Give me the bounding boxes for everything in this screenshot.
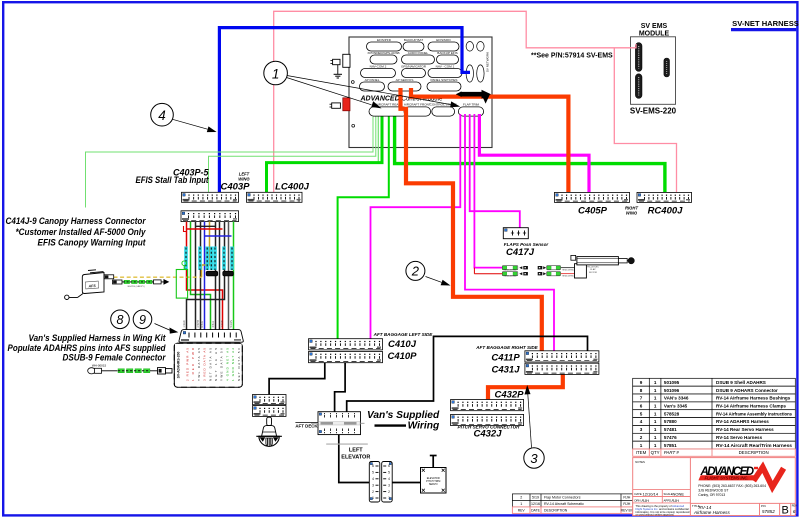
- svg-text:2 WHT: 2 WHT: [197, 320, 200, 328]
- ADAHRS bundle wire tiny labels: [183, 320, 233, 328]
- balloon 9: [133, 310, 152, 329]
- svg-text:WING: WING: [238, 177, 250, 182]
- svg-text:C432J: C432J: [474, 429, 503, 440]
- wire magenta flap trim to flap motor connector: [474, 114, 502, 268]
- balloon 3 arrow to C432P: [525, 385, 532, 448]
- trim servo box: [421, 456, 447, 494]
- svg-text:EFIS Stall Tab Input: EFIS Stall Tab Input: [136, 175, 210, 185]
- svg-text:DSUB 9 Shell ADAHRS: DSUB 9 Shell ADAHRS: [716, 380, 766, 385]
- svg-text:1: 1: [654, 443, 657, 448]
- svg-text:AFT DECK: AFT DECK: [295, 424, 318, 429]
- svg-text:C417J: C417J: [506, 247, 535, 258]
- canopy micro switch: [65, 270, 104, 300]
- wire magenta flap trim to C410J: [371, 114, 461, 339]
- connector DSUB-9 ADAHRS: [179, 330, 243, 343]
- revision table: [512, 494, 633, 514]
- svg-text:NOTES: NOTES: [635, 460, 645, 464]
- svg-text:1: 1: [654, 396, 657, 401]
- svg-text:12/10/14: 12/10/14: [643, 491, 659, 496]
- svg-text:1: 1: [654, 427, 657, 432]
- svg-text:RED1 (DRV6): RED1 (DRV6): [562, 270, 574, 272]
- canopy switch terminal lower: [113, 280, 123, 284]
- svg-text:RJH: RJH: [672, 499, 680, 503]
- svg-text:DESCRIPTION: DESCRIPTION: [544, 509, 568, 513]
- svg-text:57476: 57476: [664, 435, 677, 440]
- svg-text:5: 5: [372, 471, 374, 475]
- svg-text:2 RED PWR A5: 2 RED PWR A5: [186, 348, 190, 381]
- SV EMS small connector right: [664, 58, 670, 77]
- svg-text:DATE: DATE: [635, 492, 642, 496]
- ACM SV NETWORK oval 4: [477, 65, 484, 82]
- svg-text:RJH: RJH: [623, 496, 630, 500]
- svg-text:C410J: C410J: [388, 339, 417, 350]
- svg-text:LEFT: LEFT: [349, 448, 363, 454]
- label C403P-5 EFIS Stall Tab Input: [136, 168, 210, 186]
- svg-text:AIRCRAFT REAR: AIRCRAFT REAR: [376, 103, 402, 107]
- ACM port oval PANEL SWITCHES: [427, 78, 461, 91]
- svg-text:57481: 57481: [664, 427, 677, 432]
- svg-text:C414J-9 Canopy Harness Connect: C414J-9 Canopy Harness Connector: [6, 216, 147, 226]
- wire pink branch to RC400J: [614, 48, 676, 192]
- svg-text:SV NETWORK: SV NETWORK: [486, 52, 490, 72]
- flap motor actuator body: [571, 255, 599, 278]
- wire red flap motor lower left: [474, 273, 502, 275]
- svg-text:8: 8: [117, 313, 124, 327]
- balloon 4 arrow to blue wire: [173, 119, 217, 132]
- svg-text:C403P: C403P: [220, 182, 250, 193]
- connector elevator trim pin block right: [382, 462, 393, 503]
- svg-text:RV-14 Servo Harness: RV-14 Servo Harness: [716, 435, 763, 440]
- svg-text:57880: 57880: [664, 419, 677, 424]
- wire orange AP SERVOS to C405P: [411, 88, 568, 192]
- tail position light: [256, 417, 282, 446]
- svg-text:RV-14 Aircraft Rear/Trim Harne: RV-14 Aircraft Rear/Trim Harness: [716, 443, 792, 448]
- svg-text:578528: 578528: [664, 411, 680, 416]
- svg-text:DATE: DATE: [531, 509, 541, 513]
- splice bar right: [223, 271, 234, 276]
- ACM port oval BACKUP EFIS: [437, 51, 459, 64]
- svg-text:YWL DATA A5: YWL DATA A5: [197, 348, 201, 381]
- svg-text:RV-14 Airframe Harness Clamps: RV-14 Airframe Harness Clamps: [716, 404, 786, 409]
- balloon 9 arrow to D-sub: [155, 324, 179, 334]
- svg-text:VAN's 3346: VAN's 3346: [664, 396, 689, 401]
- ACM coax connector upper left: [330, 54, 350, 67]
- logo address text: [698, 484, 766, 497]
- balloon 4: [151, 103, 174, 126]
- svg-text:SV-ADAHRS-200: SV-ADAHRS-200: [177, 352, 181, 379]
- ACM SV NETWORK oval 2: [477, 42, 484, 52]
- svg-text:P/N: P/N: [761, 504, 766, 508]
- svg-text:DSUB 9 ADHARS Connector: DSUB 9 ADHARS Connector: [716, 388, 778, 393]
- wire blue bundle 5: [204, 222, 206, 330]
- flap motor inline connector tiny labels right: [562, 270, 574, 278]
- svg-text:EFIS/PFD: EFIS/PFD: [377, 38, 392, 42]
- svg-text:7: 7: [640, 396, 643, 401]
- svg-text:Wiring: Wiring: [408, 421, 440, 432]
- svg-text:APPD: APPD: [664, 498, 672, 502]
- green highlight circle: [182, 261, 187, 266]
- ADAHRS pin label columns: [186, 347, 241, 381]
- svg-text:SV-NET HARNESS: SV-NET HARNESS: [732, 19, 799, 28]
- balloon 1 arrow to FLAP TRIM: [287, 76, 460, 108]
- ACM port oval AIRCRAFT FRONT: [404, 103, 431, 116]
- svg-text:NAV - COM 1: NAV - COM 1: [436, 65, 455, 69]
- svg-text:RC400J: RC400J: [648, 206, 684, 217]
- wire black aft deck to elevator trim connector: [339, 435, 370, 483]
- svg-text:LC400J: LC400J: [275, 182, 310, 193]
- wire magenta flap trim to C411P: [465, 114, 554, 351]
- wire orange C431J to C432P: [488, 374, 563, 399]
- svg-text:2: 2: [372, 490, 374, 494]
- wire black bundle 8: [219, 222, 221, 330]
- svg-text:AFS: AFS: [87, 284, 96, 289]
- svg-text:RV-14 Rear Servo Harness: RV-14 Rear Servo Harness: [716, 427, 774, 432]
- balloon 1 arrow to AIRCRAFT REAR: [287, 78, 382, 109]
- wire black trim connector to trim servo: [392, 482, 420, 484]
- title block part number: [761, 504, 775, 514]
- svg-text:1: 1: [654, 380, 657, 385]
- module SV EMS box: [631, 37, 676, 105]
- svg-text:5: 5: [640, 411, 643, 416]
- label Van's Supplied Harness text block: [8, 333, 167, 363]
- svg-text:AUDIO PANEL: AUDIO PANEL: [408, 51, 429, 55]
- svg-text:C431J: C431J: [492, 365, 521, 376]
- wire green to RC400J right wing: [395, 117, 665, 193]
- splice bar left: [206, 271, 218, 276]
- svg-text:1: 1: [272, 66, 280, 81]
- svg-text:FLIGHT SYSTEMS INC.: FLIGHT SYSTEMS INC.: [705, 476, 749, 481]
- svg-text:ITEM: ITEM: [636, 450, 647, 455]
- ACM SV NETWORK oval 1: [466, 42, 473, 52]
- wire blue crossing jog upper: [205, 235, 232, 237]
- svg-text:57851: 57851: [664, 443, 677, 448]
- mounting hole left lower: [352, 124, 355, 127]
- green highlight wire stub: [183, 266, 185, 270]
- svg-text:2: 2: [640, 435, 643, 440]
- connector C411P strip: [525, 351, 599, 362]
- svg-text:FLAP TRIM: FLAP TRIM: [463, 103, 479, 107]
- svg-text:5/19: 5/19: [532, 496, 539, 500]
- ACM port oval GPS/NAVIGATOR: [401, 65, 427, 78]
- BOM parts table: [633, 378, 796, 449]
- svg-text:SV EMS: SV EMS: [641, 23, 668, 30]
- svg-text:EFIS/MFD: EFIS/MFD: [436, 38, 451, 42]
- connector FLAPS position sensor C417J: [503, 228, 528, 239]
- wire green bundle 2: [191, 222, 211, 330]
- svg-text:NET DATA 5V: NET DATA 5V: [237, 348, 241, 381]
- title block rev number: [792, 505, 797, 515]
- ACM port oval AP SERVOS: [388, 78, 421, 91]
- svg-text:6: 6: [793, 509, 796, 515]
- wire gray bundle 10: [228, 222, 230, 330]
- divider line LEFT ELEVATOR: [326, 443, 368, 445]
- balloon 8: [111, 310, 130, 329]
- connector C410J strip: [309, 339, 383, 350]
- connector C410P strip: [309, 352, 383, 363]
- svg-text:REV: REV: [518, 509, 526, 513]
- wire red bundle 1: [187, 222, 223, 330]
- svg-text:RV-14: RV-14: [699, 505, 712, 510]
- svg-text:6 BLU: 6 BLU: [201, 321, 204, 328]
- wire black flap motor to actuator upper: [561, 267, 575, 269]
- svg-text:3: 3: [372, 483, 374, 487]
- cyan heat shrink markers: [186, 247, 232, 271]
- connector C431J strip: [525, 363, 599, 374]
- svg-text:6: 6: [640, 404, 643, 409]
- connector C405P strip: [555, 192, 630, 202]
- svg-text:C411P: C411P: [491, 352, 520, 363]
- wire olive canopy switch wire: [202, 222, 210, 278]
- wire black C411P to aft deck: [347, 336, 588, 411]
- svg-text:BACKUP EFIS: BACKUP EFIS: [437, 51, 457, 55]
- svg-text:C405P: C405P: [578, 206, 608, 217]
- connector AFT DECK block: [311, 412, 365, 435]
- ACM SV NETWORK oval 3: [466, 65, 473, 82]
- wire black bundle 9: [187, 222, 225, 330]
- ACM port oval FLAP TRIM: [458, 103, 483, 116]
- title block drawing title: [692, 504, 730, 515]
- balloon 2 arrow to orange wire: [426, 277, 451, 286]
- svg-text:MODULE: MODULE: [639, 30, 670, 37]
- svg-text:ELEVATOR: ELEVATOR: [341, 455, 370, 461]
- wire magenta flap trim to C417J flap sensor: [470, 114, 520, 228]
- module ACM Advanced Control Module box: [349, 37, 492, 148]
- svg-text:FLAP: FLAP: [590, 268, 596, 271]
- svg-text:GPS/NAVIGATOR: GPS/NAVIGATOR: [401, 65, 427, 69]
- svg-text:Van's Supplied: Van's Supplied: [367, 410, 440, 421]
- connector RC400J strip: [637, 192, 692, 202]
- svg-text:2: 2: [388, 490, 390, 494]
- wire green long bundle 11: [233, 222, 235, 330]
- svg-text:DESCRIPTION: DESCRIPTION: [739, 450, 769, 455]
- svg-text:NET 1A A5: NET 1A A5: [214, 348, 218, 381]
- svg-text:Van's 3345: Van's 3345: [664, 404, 688, 409]
- svg-text:**See P/N:57914 SV-EMS: **See P/N:57914 SV-EMS: [531, 53, 613, 60]
- svg-text:QTY: QTY: [651, 450, 660, 455]
- svg-text:5: 5: [388, 471, 390, 475]
- wire black bundle 4: [200, 222, 202, 330]
- wire green banded canopy switch: [122, 280, 164, 288]
- svg-text:C432P: C432P: [494, 390, 524, 401]
- svg-text:Airframe Harness: Airframe Harness: [693, 510, 730, 515]
- svg-text:C410P: C410P: [387, 351, 417, 362]
- wire black C410P to aft deck: [335, 363, 346, 412]
- svg-text:PANEL SWITCHES: PANEL SWITCHES: [431, 78, 458, 82]
- svg-text:AIRCRAFT FRONT: AIRCRAFT FRONT: [404, 103, 431, 107]
- svg-text:501095: 501095: [664, 380, 680, 385]
- svg-text:1 GND NET A2: 1 GND NET A2: [231, 348, 235, 381]
- label RIGHT WING: [625, 206, 638, 216]
- SV EMS connector bar upper: [635, 43, 642, 72]
- svg-text:3: 3: [388, 483, 390, 487]
- svg-text:YWE DATA 5V: YWE DATA 5V: [220, 348, 224, 381]
- connector C414 canopy strip: [181, 211, 239, 222]
- wire black crossing jog upper: [196, 225, 216, 227]
- ACM port oval AIRCRAFT REAR: [369, 103, 408, 116]
- connector C403P strip: [182, 192, 239, 202]
- svg-text:501096: 501096: [664, 388, 680, 393]
- SV EMS connector bar lower: [635, 74, 642, 99]
- label LEFT WING: [238, 172, 250, 182]
- svg-text:EFIS Canopy Warning Input: EFIS Canopy Warning Input: [38, 238, 147, 248]
- module SV-ADAHRS-200 block: [174, 343, 242, 387]
- ACM port oval NAV-COM 2: [361, 65, 396, 78]
- wire light green C stub: [377, 117, 379, 163]
- svg-text:2: 2: [520, 496, 522, 500]
- svg-text:AFT BAGGAGE RIGHT SIDE: AFT BAGGAGE RIGHT SIDE: [475, 345, 538, 350]
- svg-text:DSUB-9 Female Connector: DSUB-9 Female Connector: [63, 353, 167, 363]
- wire black bundle 3: [195, 222, 197, 330]
- svg-text:3 RED DATA A5: 3 RED DATA A5: [203, 348, 207, 381]
- connector C432J strip: [451, 414, 524, 425]
- wire light green A to canopy area: [86, 117, 374, 208]
- svg-text:1: 1: [654, 411, 657, 416]
- mounting hole left upper: [351, 81, 354, 84]
- green highlight box: [176, 270, 187, 299]
- svg-text:RJH: RJH: [642, 499, 650, 503]
- svg-text:*Customer Installed AF-5000 On: *Customer Installed AF-5000 Only: [16, 227, 147, 237]
- svg-text:REV BY: REV BY: [621, 509, 634, 513]
- balloon 3: [524, 448, 544, 468]
- label AFT DECK: [295, 422, 318, 428]
- wire light green B to C403P: [209, 117, 376, 193]
- flap motor actuator barrel: [577, 257, 629, 265]
- flap motor inline connector tiny labels left: [504, 270, 516, 278]
- svg-text:NONE: NONE: [673, 491, 685, 496]
- svg-text:9: 9: [640, 380, 643, 385]
- svg-text:57852: 57852: [762, 509, 775, 514]
- svg-text:RED1 (DRV4): RED1 (DRV4): [504, 270, 516, 272]
- svg-text:SCALE: SCALE: [664, 492, 673, 496]
- svg-text:8: 8: [640, 388, 643, 393]
- svg-text:1: 1: [520, 502, 522, 506]
- ACM red power connector lower left: [330, 98, 351, 111]
- wire pink LC400J to SV-EMS: [274, 11, 636, 192]
- svg-text:BACKUP BAT: BACKUP BAT: [404, 38, 423, 42]
- svg-text:Flap Motor Connectors: Flap Motor Connectors: [544, 496, 581, 500]
- svg-text:2: 2: [411, 264, 420, 279]
- svg-text:1: 1: [654, 404, 657, 409]
- svg-text:B: B: [782, 505, 789, 517]
- connector C432P strip: [451, 400, 524, 411]
- svg-text:Van's Supplied Harness in Wing: Van's Supplied Harness in Wing Kit: [29, 333, 167, 343]
- svg-text:REV: REV: [792, 505, 797, 508]
- balloon 1: [264, 61, 288, 85]
- ACM port oval AP PANEL: [360, 78, 385, 91]
- connector tail strip lower: [253, 406, 287, 417]
- wire green to LC400J: [267, 117, 383, 193]
- svg-text:4: 4: [640, 419, 643, 424]
- svg-text:PART #: PART #: [664, 450, 680, 455]
- logo ADVANCED Flight Systems: [698, 466, 758, 481]
- balloon 2: [406, 261, 425, 280]
- canopy switch terminal upper: [104, 275, 114, 279]
- svg-text:1: 1: [640, 443, 643, 448]
- wire black C410P to tail strip: [269, 363, 325, 395]
- ACM port oval BACKUP BAT: [403, 38, 424, 51]
- ACM port oval AUDIO PANEL: [402, 51, 435, 64]
- svg-text:Canby, OR 97013: Canby, OR 97013: [698, 493, 725, 497]
- svg-text:3 BLK: 3 BLK: [212, 321, 215, 328]
- svg-text:AP SERVOS: AP SERVOS: [396, 78, 414, 82]
- svg-text:4 GND NET A5: 4 GND NET A5: [225, 348, 229, 381]
- svg-text:4: 4: [388, 477, 390, 481]
- wire red flap motor to actuator lower: [561, 273, 576, 275]
- svg-text:RED2 (DRV6): RED2 (DRV6): [562, 276, 574, 278]
- svg-text:RV-14 Airframe Harness Bushing: RV-14 Airframe Harness Bushings: [716, 396, 791, 401]
- svg-text:1 RED: 1 RED: [183, 320, 186, 327]
- arrowhead canopy wire: [164, 279, 170, 285]
- svg-text:Populate ADAHRS pins into AFS: Populate ADAHRS pins into AFS supplied: [8, 343, 167, 353]
- ACM port oval EFIS/MFD: [428, 38, 459, 51]
- svg-text:4 RED: 4 RED: [221, 320, 224, 327]
- ACM port oval EFIS/PFD: [367, 38, 402, 51]
- svg-text:XPONDER/GPS-ADSB: XPONDER/GPS-ADSB: [367, 51, 399, 55]
- ground symbol at ACM coax: [334, 65, 342, 78]
- svg-text:or used without written approv: or used without written approval.: [636, 513, 675, 517]
- svg-text:SERVO: SERVO: [429, 483, 438, 486]
- label LEFT ELEVATOR: [341, 448, 370, 461]
- title block disclaimer text: [636, 504, 690, 517]
- connector LC400J strip: [247, 192, 303, 202]
- svg-text:NET DATA A5: NET DATA A5: [208, 348, 212, 381]
- svg-text:1: 1: [654, 419, 657, 424]
- wire blue SV-NET underline bar: [731, 28, 796, 31]
- connector tail strip upper: [253, 395, 287, 405]
- svg-text:9: 9: [139, 313, 146, 327]
- label SV EMS MODULE: [639, 23, 670, 38]
- ACM port oval NAV - COM 1: [428, 65, 462, 78]
- svg-text:PHONE: (503) 263-6637 FAX: (: PHONE: (503) 263-6637 FAX: (503) 263-604: [698, 484, 766, 488]
- BOM header row: [633, 449, 796, 456]
- ACM port oval XPONDER/GPS-ADSB: [367, 51, 399, 64]
- svg-text:4: 4: [372, 477, 374, 481]
- svg-text:WH-00015: WH-00015: [92, 364, 107, 368]
- svg-text:3: 3: [530, 451, 538, 466]
- svg-text:RED2 (DRV4): RED2 (DRV4): [504, 276, 516, 278]
- svg-text:NAV-COM 2: NAV-COM 2: [370, 65, 387, 69]
- svg-text:SV-EMS-220: SV-EMS-220: [630, 107, 677, 116]
- svg-text:AP PANEL: AP PANEL: [365, 78, 380, 82]
- svg-text:RV-14 Airframe Assembly Instru: RV-14 Airframe Assembly Instructions: [716, 411, 792, 416]
- svg-text:WH-P114 (CANOPY): WH-P114 (CANOPY): [128, 285, 145, 288]
- svg-text:1: 1: [654, 388, 657, 393]
- flap motor inline connectors right pair: [538, 266, 561, 276]
- wire yellow dashed canopy to switch: [114, 276, 202, 278]
- logo red pulse mark: [751, 461, 786, 493]
- svg-text:DRN: DRN: [635, 498, 641, 502]
- legend Van's Supplied Wiring: [367, 410, 440, 432]
- svg-text:1: 1: [654, 435, 657, 440]
- svg-text:WING: WING: [626, 211, 638, 216]
- svg-text:3JS REDWOOD ST: 3JS REDWOOD ST: [698, 489, 728, 493]
- ACM black arrow right-down: [456, 90, 491, 104]
- svg-text:MOTOR: MOTOR: [589, 272, 597, 274]
- svg-text:RJH: RJH: [623, 502, 630, 506]
- svg-text:12/16: 12/16: [531, 502, 540, 506]
- wire green to C410J: [338, 117, 389, 339]
- connector elevator trim pin block left: [369, 462, 380, 503]
- wire orange AP SERVOS to C411P: [401, 88, 542, 351]
- flap motor inline connectors left pair: [502, 266, 528, 276]
- title block frame: [633, 458, 796, 516]
- wire blue C403P to ACM SV NETWORK: [219, 28, 470, 193]
- svg-text:RV-14 ADAHRS Harness: RV-14 ADAHRS Harness: [716, 419, 769, 424]
- svg-text:3: 3: [640, 427, 643, 432]
- wire black bundle 7: [215, 222, 217, 330]
- svg-text:4: 4: [158, 108, 166, 123]
- svg-text:AFT BAGGAGE LEFT SIDE: AFT BAGGAGE LEFT SIDE: [373, 332, 434, 337]
